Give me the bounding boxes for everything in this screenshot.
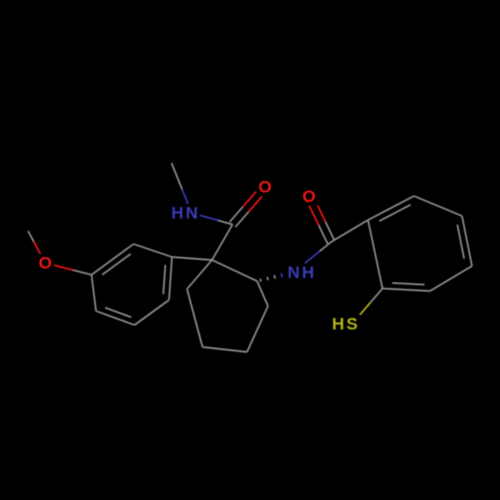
- svg-text:O: O: [302, 187, 317, 206]
- svg-text:HN: HN: [171, 204, 200, 223]
- svg-text:O: O: [39, 254, 54, 273]
- svg-text:O: O: [258, 178, 273, 197]
- svg-text:NH: NH: [287, 263, 316, 282]
- svg-text:HS: HS: [332, 315, 360, 334]
